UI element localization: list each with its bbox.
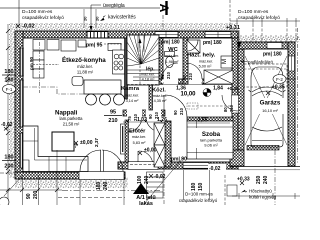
svg-text:Hőszivattyú: Hőszivattyú bbox=[249, 189, 272, 194]
svg-text:2,55: 2,55 bbox=[198, 118, 208, 124]
svg-text:-0,02: -0,02 bbox=[22, 24, 35, 30]
dashed ceiling line kitchen bbox=[39, 42, 41, 93]
text d100 top right bbox=[238, 9, 280, 21]
svg-text:máz.ker.: máz.ker. bbox=[199, 60, 213, 64]
text A/1 jelu lakas bbox=[136, 195, 156, 207]
window ref F-1 bbox=[3, 85, 16, 94]
svg-text:+0,35: +0,35 bbox=[272, 85, 285, 91]
level +0,31 top right bbox=[226, 25, 242, 48]
text uvegtegla bbox=[90, 3, 125, 31]
svg-text:200: 200 bbox=[33, 190, 39, 199]
svg-text:210: 210 bbox=[108, 118, 117, 124]
svg-text:Étkező-konyha: Étkező-konyha bbox=[62, 56, 106, 64]
sofa L-shape bbox=[23, 126, 88, 172]
corridor mat dashed box bbox=[187, 103, 198, 109]
svg-text:csapadékvíz lefolyó: csapadékvíz lefolyó bbox=[22, 15, 64, 21]
svg-text:5,00 m²: 5,00 m² bbox=[199, 65, 213, 69]
wall szoba left vertical bbox=[165, 121, 171, 167]
svg-text:kültéri egység: kültéri egység bbox=[249, 195, 277, 200]
wall stairs-wc vertical bbox=[159, 38, 163, 79]
svg-text:210: 210 bbox=[166, 71, 171, 79]
svg-text:180: 180 bbox=[4, 155, 13, 161]
window size 180/200 left bbox=[2, 155, 16, 170]
entrance outdoor steps bbox=[147, 172, 164, 198]
szoba bed bbox=[187, 121, 233, 159]
svg-text:90: 90 bbox=[26, 193, 32, 199]
svg-text:pm| 180: pm| 180 bbox=[263, 52, 282, 58]
svg-text:csapadékvíz lefolyó: csapadékvíz lefolyó bbox=[238, 15, 280, 21]
dining chair left bbox=[72, 77, 83, 86]
svg-text:pm| 180: pm| 180 bbox=[203, 40, 222, 46]
svg-text:D=100 mm-es: D=100 mm-es bbox=[22, 9, 53, 15]
svg-text:Házt. hely.: Házt. hely. bbox=[187, 53, 216, 59]
garage car bbox=[249, 67, 286, 147]
room label garazs bbox=[254, 98, 287, 114]
stairs bbox=[127, 35, 159, 85]
svg-text:90: 90 bbox=[182, 75, 187, 80]
garage attic hatch dashed bbox=[244, 64, 287, 87]
radiator nappali bbox=[121, 124, 126, 154]
svg-text:5,83 m²: 5,83 m² bbox=[133, 141, 147, 145]
svg-text:210: 210 bbox=[188, 72, 193, 80]
window WC top bbox=[155, 32, 178, 38]
wc door arc bbox=[162, 63, 178, 79]
entrance axis dash line bbox=[163, 160, 165, 205]
room label kozl bbox=[152, 88, 167, 104]
bottom mid dimension marks bbox=[58, 158, 225, 205]
wall garage right bbox=[288, 42, 295, 166]
svg-text:csapadékvíz lefolyó: csapadékvíz lefolyó bbox=[179, 198, 218, 203]
svg-text:máz.ker.: máz.ker. bbox=[165, 54, 179, 58]
eaves dim 20 20 bbox=[83, 9, 100, 28]
svg-text:1,98 m²: 1,98 m² bbox=[166, 60, 180, 64]
text d100 top left bbox=[19, 0, 64, 26]
svg-text:kavicsterítés: kavicsterítés bbox=[108, 15, 136, 21]
svg-text:máz.ker.: máz.ker. bbox=[132, 135, 146, 139]
gravel band top bbox=[9, 23, 238, 31]
garage door leaf bbox=[230, 146, 300, 170]
terrace door opening bbox=[79, 172, 124, 180]
window left F-1 180/150 bbox=[20, 80, 24, 127]
svg-text:1,02: 1,02 bbox=[137, 117, 147, 123]
kozl-eloter door arc bbox=[146, 117, 161, 132]
svg-text:lam.parketta: lam.parketta bbox=[59, 116, 83, 121]
svg-text:WC: WC bbox=[168, 47, 178, 53]
room label nappali bbox=[55, 110, 83, 127]
szoba door arc bbox=[164, 95, 187, 117]
svg-text:üvegtégla: üvegtégla bbox=[103, 3, 125, 9]
svg-text:máz.ker.: máz.ker. bbox=[141, 73, 155, 77]
wire top reference line bbox=[0, 7, 160, 9]
glass block window in top wall bbox=[87, 32, 108, 39]
svg-text:21,58 m²: 21,58 m² bbox=[63, 122, 80, 127]
svg-text:150: 150 bbox=[198, 182, 204, 191]
room label lepcso bbox=[141, 67, 155, 82]
gravel band left bbox=[9, 26, 15, 178]
svg-text:M: M bbox=[222, 59, 228, 64]
coffee table bbox=[52, 132, 78, 151]
svg-text:150: 150 bbox=[4, 78, 13, 84]
svg-text:pm 90: pm 90 bbox=[29, 56, 34, 70]
svg-text:100: 100 bbox=[137, 175, 143, 184]
level -0,02 at szoba window bbox=[208, 164, 226, 172]
text hoszivattyu bbox=[227, 185, 277, 200]
svg-text:16,10 m²: 16,10 m² bbox=[262, 108, 278, 113]
svg-text:2,37: 2,37 bbox=[94, 138, 99, 147]
terrace french door arcs bbox=[80, 150, 123, 172]
hazt washing machine M bbox=[221, 56, 232, 68]
right dashed vertical line bbox=[297, 28, 299, 163]
wall mid horizontal bbox=[150, 79, 238, 85]
kitchen counter right column with sink and hob bbox=[113, 50, 125, 74]
svg-text:pm| 95: pm| 95 bbox=[86, 43, 103, 49]
svg-text:4,35 m²: 4,35 m² bbox=[154, 99, 168, 103]
level +0,33 garage front bbox=[237, 177, 250, 186]
entrance triangle bbox=[133, 183, 149, 194]
svg-text:180: 180 bbox=[96, 181, 102, 190]
svg-text:9,06 m²: 9,06 m² bbox=[204, 143, 218, 148]
svg-text:máz.ker.: máz.ker. bbox=[153, 94, 167, 98]
svg-text:90: 90 bbox=[148, 114, 153, 119]
svg-text:+0,31: +0,31 bbox=[226, 25, 240, 31]
room label etkezo-konyha bbox=[62, 56, 106, 75]
wall house-garage vertical bbox=[232, 38, 244, 169]
section marker A bbox=[157, 1, 171, 31]
wall bottom nappali bbox=[15, 172, 125, 179]
svg-text:20: 20 bbox=[83, 16, 88, 21]
svg-text:210: 210 bbox=[154, 111, 159, 119]
svg-text:240: 240 bbox=[144, 175, 150, 184]
level 0,00 nappali bbox=[74, 140, 93, 146]
svg-text:250: 250 bbox=[256, 175, 262, 184]
top right dimension row bbox=[230, 0, 300, 42]
text kavicsterites bbox=[100, 15, 136, 22]
text padlasfeljaro bbox=[241, 60, 273, 65]
wall wc-hazt vertical bbox=[183, 38, 188, 84]
svg-text:76: 76 bbox=[160, 74, 165, 79]
svg-text:4,18 m²: 4,18 m² bbox=[142, 78, 156, 82]
svg-text:Kamra: Kamra bbox=[121, 86, 140, 92]
level marker circle cross bbox=[203, 89, 211, 97]
room label eloter bbox=[129, 129, 146, 146]
window left lower 180/200 bbox=[20, 133, 24, 168]
svg-text:210: 210 bbox=[133, 113, 138, 121]
gravel band top garage bbox=[238, 35, 300, 42]
corridor dashed ceiling line bbox=[188, 105, 230, 107]
level -0,02 bottom bbox=[149, 174, 166, 180]
bottom dimension line left bbox=[0, 150, 62, 205]
svg-text:máz.ker.: máz.ker. bbox=[125, 94, 139, 98]
level +0,35 garage bbox=[266, 85, 285, 96]
level -0,02 left bbox=[1, 122, 13, 131]
svg-text:Közl.: Közl. bbox=[152, 88, 166, 94]
svg-text:-0,02: -0,02 bbox=[1, 122, 13, 128]
dining chairs circles bbox=[86, 94, 125, 105]
svg-text:Előtér: Előtér bbox=[129, 129, 146, 135]
wall eloter top with doors bbox=[123, 110, 171, 123]
window left upper pm90 bbox=[20, 48, 24, 76]
wall kamra-kozl vertical bbox=[149, 79, 153, 110]
svg-text:80: 80 bbox=[223, 107, 228, 112]
svg-text:padlásfeljáró: padlásfeljáró bbox=[248, 60, 273, 65]
entrance door opening bbox=[128, 162, 158, 170]
svg-text:F-1: F-1 bbox=[6, 87, 13, 92]
svg-text:+0,35: +0,35 bbox=[227, 86, 239, 91]
room label wc bbox=[165, 47, 179, 64]
svg-text:Garázs: Garázs bbox=[260, 100, 281, 107]
left dimension column bbox=[6, 24, 10, 200]
entrance steps bbox=[130, 151, 156, 165]
room label hazt hely bbox=[187, 53, 216, 69]
window Hazt top bbox=[205, 32, 231, 38]
wall kitchen-stairs vertical bbox=[125, 38, 129, 162]
svg-text:180: 180 bbox=[191, 182, 197, 191]
hazt door arc bbox=[186, 63, 202, 79]
svg-text:1,84: 1,84 bbox=[213, 86, 223, 92]
svg-text:-0,02: -0,02 bbox=[209, 166, 221, 172]
svg-text:95: 95 bbox=[110, 110, 116, 116]
wall garage bottom-left stub bbox=[230, 150, 244, 166]
wall garage top bbox=[238, 42, 295, 49]
wall top main bbox=[15, 31, 238, 38]
window szoba bottom pm90 bbox=[183, 163, 209, 169]
bottom right dimension bbox=[232, 150, 300, 205]
svg-text:A: A bbox=[157, 4, 171, 13]
svg-text:F-2: F-2 bbox=[276, 77, 283, 82]
corner junction lines bbox=[23, 160, 29, 172]
svg-text:240: 240 bbox=[103, 181, 109, 190]
svg-text:90: 90 bbox=[173, 110, 178, 115]
kitchen counter top-left boxes bbox=[33, 40, 122, 79]
svg-text:210: 210 bbox=[229, 104, 234, 112]
level -0,02 top left bbox=[16, 24, 35, 30]
room label kamra bbox=[121, 86, 140, 103]
room label szoba bbox=[193, 128, 230, 148]
szoba wardrobe x-boxes bbox=[154, 123, 165, 167]
divider dash-dot kitchen-nappali bbox=[23, 87, 121, 94]
svg-text:D=100 mm-es: D=100 mm-es bbox=[238, 9, 269, 15]
garage door from kozl arc bbox=[222, 95, 238, 111]
hazt appliance x-box bbox=[204, 70, 233, 84]
wc toilet bbox=[165, 52, 175, 68]
svg-text:±0,00: ±0,00 bbox=[80, 140, 93, 146]
svg-text:máz.ker.: máz.ker. bbox=[77, 64, 93, 69]
svg-text:20: 20 bbox=[95, 16, 100, 21]
garage ramp X bbox=[245, 56, 287, 145]
dim 2,55 bbox=[188, 118, 230, 124]
window size 180/150 left bbox=[2, 69, 16, 84]
svg-text:10,00: 10,00 bbox=[180, 92, 196, 98]
svg-text:200: 200 bbox=[4, 164, 13, 170]
svg-text:11,88 m²: 11,88 m² bbox=[77, 70, 94, 75]
wall bottom szoba bbox=[118, 162, 238, 169]
svg-text:pm| 180: pm| 180 bbox=[161, 40, 180, 46]
door size 95/210 nappali bbox=[104, 110, 122, 125]
svg-text:75: 75 bbox=[127, 116, 132, 121]
text d100 bottom bbox=[179, 192, 218, 204]
svg-text:180: 180 bbox=[4, 69, 13, 75]
gravel band bottom bbox=[15, 177, 128, 188]
svg-text:240: 240 bbox=[263, 175, 269, 184]
wall left bbox=[15, 31, 23, 172]
svg-text:pm| 90: pm| 90 bbox=[171, 157, 187, 163]
hazt corner cabinet bbox=[187, 40, 200, 53]
svg-text:210: 210 bbox=[179, 107, 184, 115]
door opening hazt-garage bbox=[232, 95, 239, 113]
kamra door arc bbox=[127, 117, 142, 132]
window ref F-2 bbox=[273, 75, 296, 84]
svg-text:3,14 m²: 3,14 m² bbox=[126, 99, 140, 103]
wall szoba top thin bbox=[187, 117, 233, 121]
dining table bbox=[84, 80, 121, 94]
